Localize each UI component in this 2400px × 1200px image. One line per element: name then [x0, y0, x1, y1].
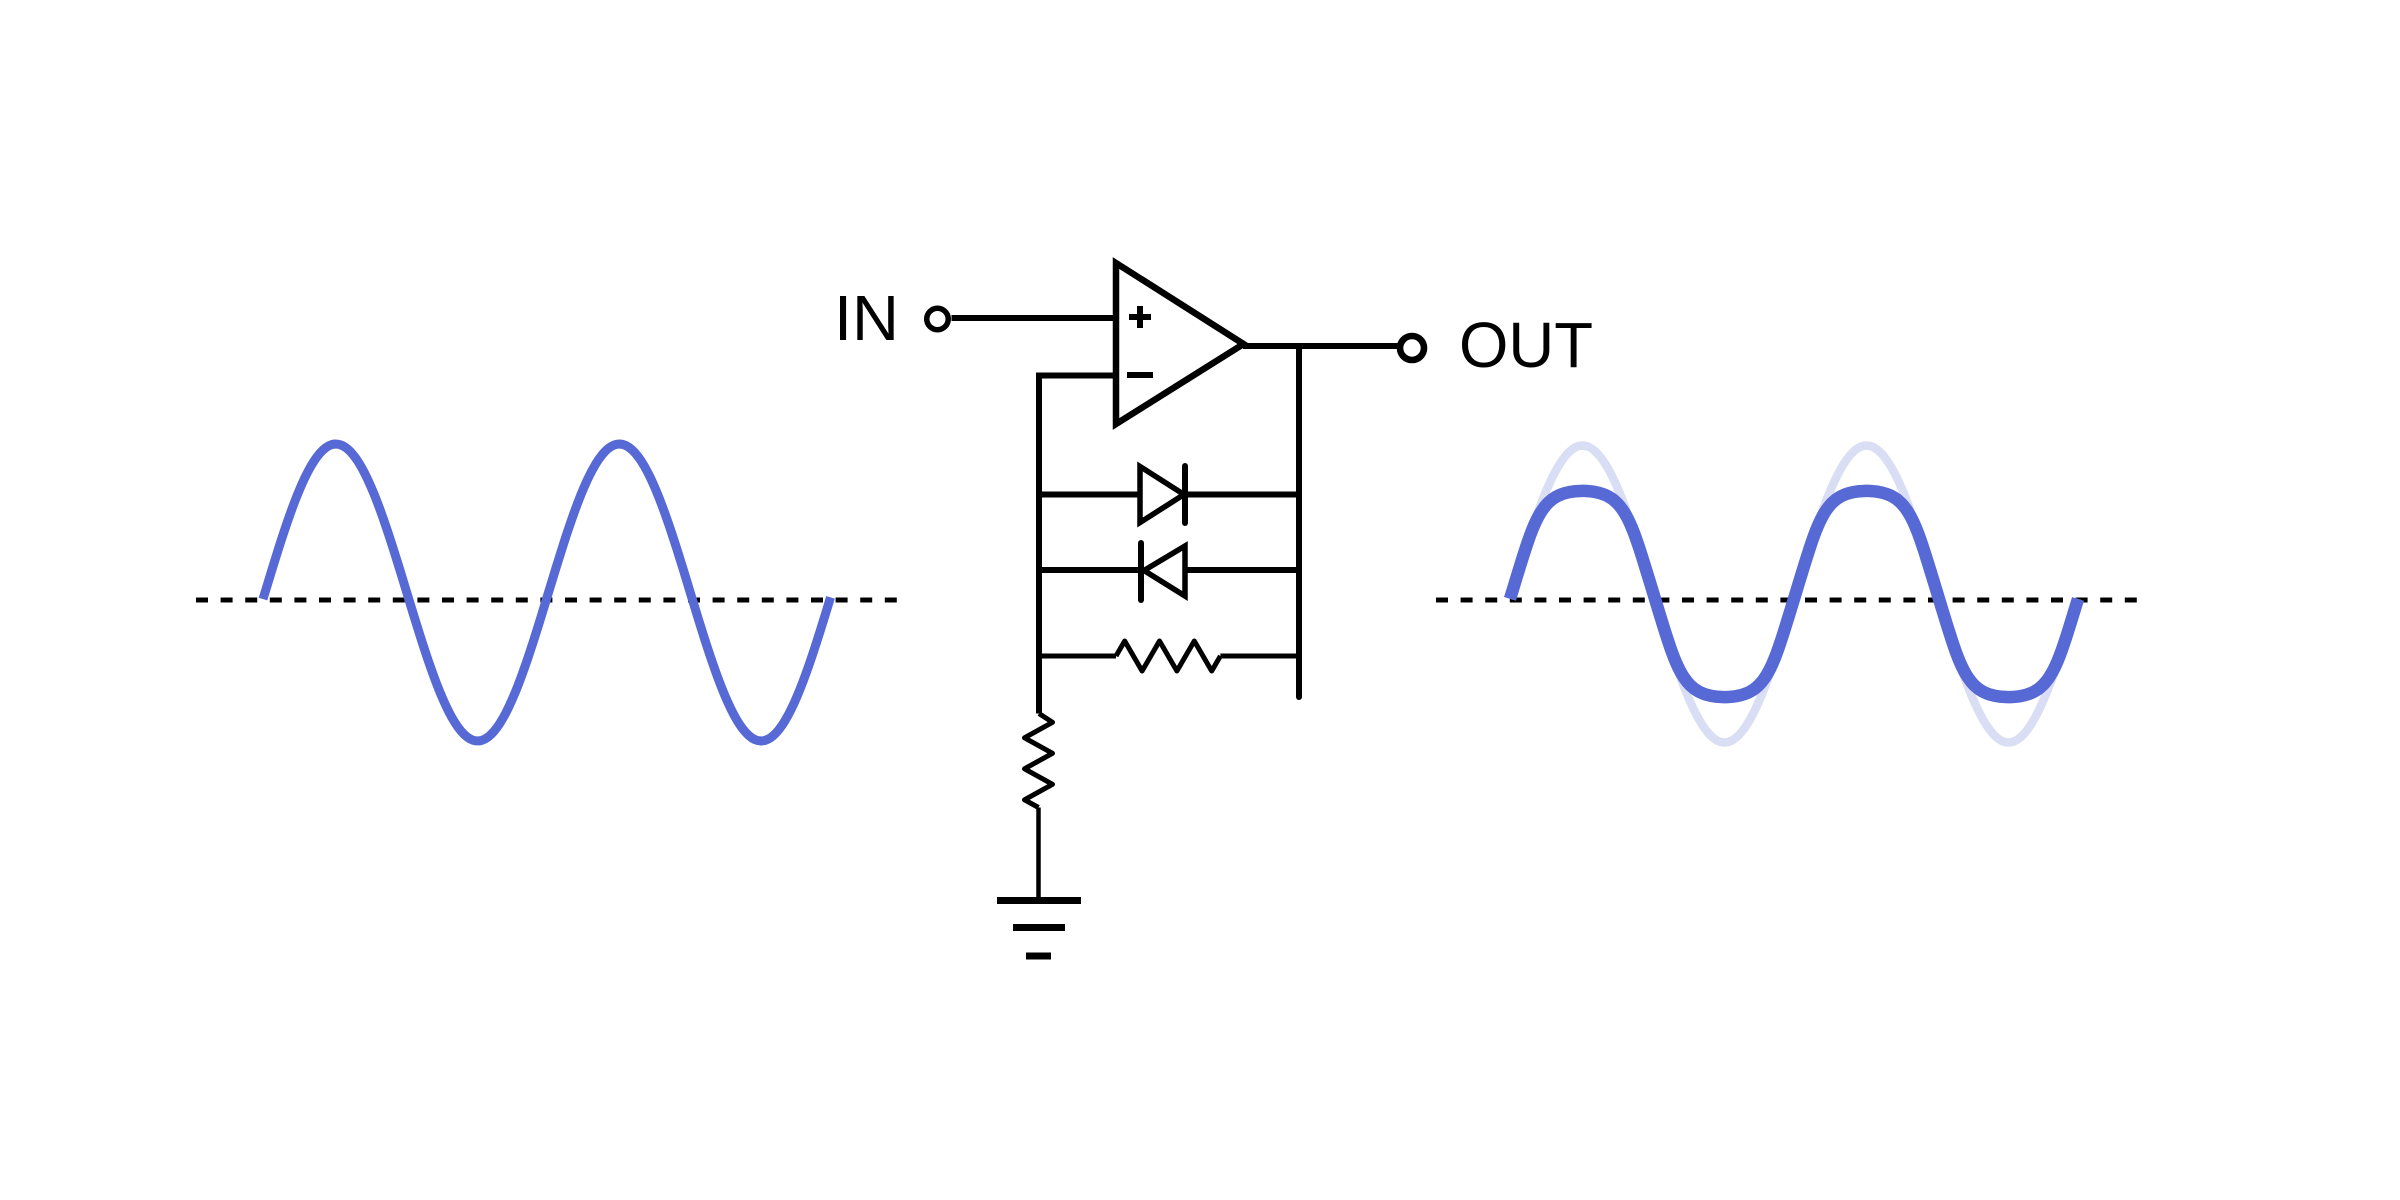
- terminal IN: [927, 308, 949, 330]
- wire IN terminal to op-amp noninverting input: [952, 315, 1117, 321]
- wire to feedback resistor R1: [1039, 654, 1116, 659]
- input waveform baseline (dashed zero line): [196, 598, 900, 603]
- diode D1 (conducting right): [1140, 466, 1185, 523]
- wire to diode D1 anode: [1039, 492, 1140, 498]
- ground: [997, 901, 1081, 957]
- wire inverting input to feedback left rail: [1039, 376, 1116, 714]
- wire right feedback rail: [1296, 347, 1302, 697]
- wire from D1 cathode to right rail: [1185, 492, 1299, 498]
- output waveform baseline (dashed zero line): [1436, 598, 2140, 603]
- wire to diode D2 cathode: [1039, 567, 1141, 573]
- diode D2 (conducting left): [1141, 543, 1185, 600]
- wire R2 to ground: [1036, 808, 1041, 899]
- op-amp plus symbol: [1129, 306, 1151, 328]
- svg-text:IN: IN: [834, 282, 899, 354]
- svg-text:OUT: OUT: [1459, 309, 1593, 381]
- input sine wave: [263, 444, 831, 741]
- wire from D2 anode to right rail: [1185, 567, 1299, 573]
- wire op-amp output: [1243, 343, 1398, 349]
- original-amplitude sine (faint): [1510, 446, 2078, 743]
- clipped output wave: [1510, 491, 2078, 697]
- resistor R1 (feedback): [1116, 641, 1220, 671]
- resistor R2 (to ground): [1025, 714, 1053, 808]
- wire from R1 to right rail: [1220, 654, 1299, 659]
- op-amp U1: [1116, 263, 1244, 424]
- op-amp minus symbol: [1127, 372, 1153, 378]
- terminal OUT: [1400, 336, 1424, 360]
